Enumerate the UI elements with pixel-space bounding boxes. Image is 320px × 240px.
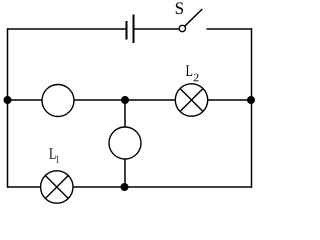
label S: [176, 2, 183, 14]
node: junction dot, right edge middle wire: [247, 96, 255, 104]
switch S: [179, 9, 202, 32]
wire: top side, left corner to battery: [8, 28, 127, 30]
label L1 - letter L: [49, 148, 55, 159]
node: junction dot, middle branch top: [121, 96, 129, 104]
wire: middle branch upper, node to meter: [124, 100, 126, 127]
label L2 - letter L: [186, 65, 192, 76]
wire: right side vertical: [251, 28, 253, 188]
label L2 - subscript 2: [194, 74, 199, 82]
node: junction dot, middle branch bottom: [121, 183, 129, 191]
wire: battery to switch pivot: [134, 28, 180, 30]
lamp L2: [175, 84, 207, 116]
meter (empty circle, middle row left): [42, 85, 74, 117]
wire: left side vertical: [7, 28, 9, 188]
meter (empty circle, middle branch): [109, 127, 141, 159]
wire: lamp L2 to right edge: [208, 99, 252, 101]
wire: bottom side, left corner to lamp L1: [8, 186, 41, 188]
wire: switch to top-right corner: [207, 28, 253, 30]
wire: lamp L1 to bottom-right corner: [73, 186, 252, 188]
label L1 - subscript 1: [56, 156, 59, 163]
battery cell: [127, 15, 134, 44]
wire: middle branch lower, meter to bottom wire: [124, 159, 126, 187]
lamp L1: [41, 171, 73, 203]
wire: meter to lamp L2: [74, 99, 175, 101]
wire: middle row, left edge to meter: [8, 99, 43, 101]
node: junction dot, left edge middle wire: [4, 96, 12, 104]
